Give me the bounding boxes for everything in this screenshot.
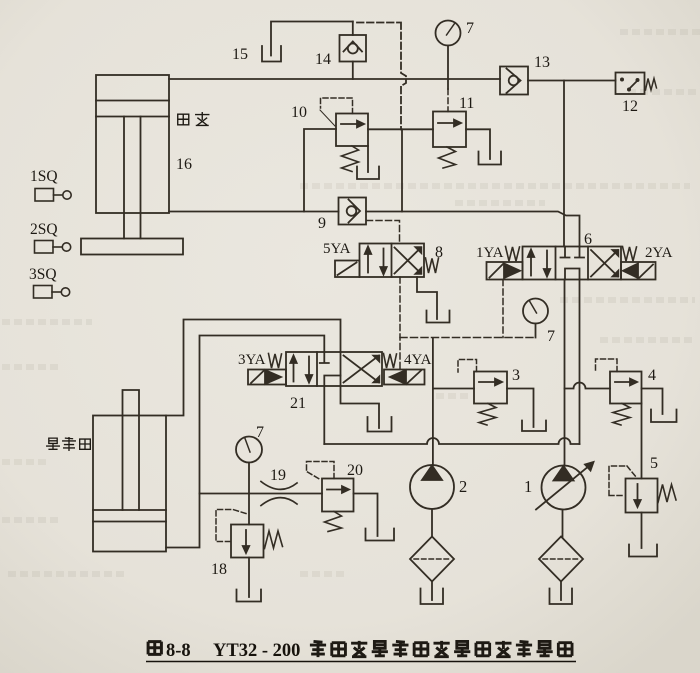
svg-text:7: 7 — [256, 424, 264, 441]
wire: valve 3 outlet to tank — [507, 389, 534, 428]
wire: gauge 7a stem — [447, 46, 449, 90]
variable pump 1 — [536, 462, 594, 510]
caption 图8-8 YT32-200型四柱万能液压机液压系统图 — [146, 641, 576, 662]
spring of valve 10 — [342, 146, 359, 172]
filter under pump 2 — [410, 537, 454, 582]
limit switch 1SQ — [35, 189, 71, 202]
svg-text:19: 19 — [270, 467, 286, 484]
wire: filter 2 to tank — [431, 582, 433, 601]
wire: gauge 7b stem — [535, 324, 537, 338]
pressure gauge 7b — [523, 299, 548, 324]
svg-text:4YA: 4YA — [404, 352, 432, 368]
wire: riser check14 to L1 — [352, 62, 354, 80]
pilot dashed of valve 4 — [596, 359, 618, 372]
check valve 9 — [339, 198, 367, 225]
solenoid 2YA of valve 6 — [621, 262, 656, 280]
wire: low line L2 (cylinder bottom to check 9) — [169, 211, 339, 213]
solenoid 5YA of valve 8 — [335, 261, 360, 278]
tank under valve 8 drain — [427, 311, 450, 323]
svg-text:9: 9 — [318, 215, 326, 232]
wire: junction riser x=402 from valve10/11 line down to L2 — [401, 129, 403, 211]
svg-text:5: 5 — [650, 455, 658, 472]
relief valve 10 — [336, 114, 368, 147]
pilot line (dashed) from check 14 down to valve 10/11 line — [357, 23, 406, 130]
limit switch 2SQ — [35, 241, 71, 254]
svg-text:1YA: 1YA — [476, 245, 504, 261]
svg-text:5YA: 5YA — [323, 241, 351, 257]
wire: return line valve21 to valve6 T with hops — [324, 438, 579, 444]
wire: valve 5 to tank — [641, 513, 643, 549]
fixed pump 2 — [410, 465, 454, 509]
svg-text:2: 2 — [459, 477, 467, 496]
svg-text:14: 14 — [315, 51, 331, 68]
wire: valve 6 T down to return line — [579, 280, 581, 445]
pilot dashed of valve 10 — [321, 98, 353, 114]
solenoid 3YA of valve 21 — [248, 370, 286, 385]
wire: valve 6 A-port riser from L1 — [563, 81, 565, 247]
tank of valve 4 — [651, 410, 677, 423]
spring of valve 20 — [325, 512, 342, 532]
relief valve 18 — [231, 525, 264, 558]
spring of valve 5 — [658, 485, 676, 503]
pilot dashed of valve 3 — [458, 360, 477, 373]
drain of valve 8 to tank — [417, 277, 437, 319]
tank right of valve 11 — [479, 152, 502, 165]
spring of valve 4 — [613, 404, 630, 426]
svg-text:2YA: 2YA — [645, 245, 673, 261]
svg-text:11: 11 — [459, 95, 474, 112]
relief valve 11 — [433, 112, 466, 148]
tank of valve 18 — [237, 590, 262, 602]
svg-text:10: 10 — [291, 104, 307, 121]
svg-text:13: 13 — [534, 54, 550, 71]
valve 21 centre position — [320, 352, 341, 386]
solenoid valve 6 body — [523, 247, 622, 280]
svg-text:3: 3 — [512, 367, 520, 384]
spring W of valve 8 — [426, 258, 439, 273]
tank of valve 5 — [629, 545, 657, 557]
solenoid valve 21 body — [286, 352, 382, 386]
valve 6 centre position: blocked A/B, P-T connected — [561, 247, 585, 280]
valve 21 right position crossed arrows — [344, 356, 380, 383]
wire: valve 10 left port down to L2 — [304, 129, 336, 212]
svg-text:3SQ: 3SQ — [29, 266, 57, 283]
svg-text:12: 12 — [622, 98, 638, 115]
relief valve 3 — [474, 372, 507, 404]
pressure switch 12 — [616, 73, 657, 95]
pilot dashed: check 9 to valve 8 top — [367, 221, 400, 244]
check valve 13 — [500, 67, 528, 95]
spring of valve 3 — [479, 404, 496, 426]
pilot dashed of valve 18 — [216, 510, 246, 542]
wire: pump 2 suction — [431, 509, 433, 537]
wire: filter 1 to tank — [560, 582, 562, 601]
svg-text:1SQ: 1SQ — [30, 168, 58, 185]
solenoid 1YA of valve 6 — [487, 262, 523, 280]
wire: pump 2 riser to valve 3 — [433, 388, 474, 390]
valve 21 left position arrows — [290, 356, 312, 383]
pilot dashed: horizontal pilot manifold y=337.5 — [400, 337, 536, 339]
leader line of label 10 — [320, 110, 335, 126]
valve 6 right position crossed arrows — [591, 250, 618, 277]
relief valve 4 — [610, 372, 642, 404]
valve 8 left position arrows — [365, 247, 387, 275]
tank of valve 21 — [368, 417, 392, 432]
spring of valve 6 right — [623, 247, 637, 262]
pilot dashed: 1YA solenoid drop — [502, 280, 504, 338]
wire: line through valve 18 — [248, 494, 250, 598]
limit switch 3SQ — [34, 286, 70, 299]
spring of valve 21 right — [384, 354, 397, 369]
wire: L1 from valve 13 to pressure switch 12 — [528, 80, 616, 82]
wire: valve 21 P-port up and left to ejector rod side — [166, 320, 341, 416]
svg-text:YT32 - 200: YT32 - 200 — [213, 641, 300, 661]
tank under filter 2 — [421, 589, 444, 605]
tank of valve 20 — [366, 529, 395, 541]
pilot dashed from gauge 7a to valve 11 — [447, 89, 449, 112]
solenoid 4YA of valve 21 — [384, 370, 425, 385]
tank 15 — [262, 46, 281, 62]
wire: valve 10 right port to valve 11 left port — [368, 128, 433, 130]
wire: pump 1 pressure riser to valve 6 P — [564, 280, 566, 466]
label 顶出缸 — [47, 438, 91, 451]
valve 6 left position arrows — [528, 250, 550, 277]
wire: check 14 to tank 15 — [271, 22, 353, 56]
throttle valve 19 — [261, 482, 297, 506]
check valve 14 — [340, 22, 367, 62]
tank of valve 3 — [522, 421, 546, 432]
svg-text:4: 4 — [648, 367, 656, 384]
spring of valve 21 left — [269, 354, 282, 369]
pressure gauge 7c — [236, 437, 262, 463]
label 主缸 — [178, 113, 209, 126]
svg-text:1: 1 — [524, 477, 532, 496]
svg-text:2SQ: 2SQ — [30, 221, 58, 238]
wire: valve 21 A-port up-left-down to ejector bottom port — [166, 336, 324, 548]
svg-text:18: 18 — [211, 561, 227, 578]
platen of main cylinder — [81, 239, 183, 255]
wire: gauge 7c stem to ejector line — [248, 463, 250, 494]
svg-text:7: 7 — [547, 328, 555, 345]
wire: main press line L1 (cylinder top to valve 13) — [169, 78, 500, 80]
svg-text:16: 16 — [176, 156, 192, 173]
relief valve 5 — [626, 479, 658, 513]
valve 8 right position crossed arrows — [395, 247, 422, 274]
wire: pump 2 output riser — [432, 338, 434, 465]
wire: valve 4 to valve 5 — [641, 404, 643, 479]
main cylinder 16 (主缸) — [96, 75, 169, 239]
svg-text:6: 6 — [584, 231, 592, 248]
tank under filter 1 — [550, 589, 573, 605]
pilot dashed of valve 20 — [307, 462, 335, 481]
wire: valve 21 drain to tank — [341, 386, 380, 428]
wire: pump 1 suction — [562, 510, 564, 538]
drain pipe of valve 10 — [367, 146, 369, 172]
svg-text:7: 7 — [466, 20, 474, 37]
svg-text:8: 8 — [435, 244, 443, 261]
wire: L2 from check 9 to valve 6 B-port — [366, 212, 580, 247]
spring of valve 11 — [439, 147, 456, 168]
spring of valve 6 left — [506, 247, 520, 262]
svg-text:8-8: 8-8 — [166, 641, 191, 661]
tank under valve 10 — [357, 167, 379, 180]
solenoid valve 8 body — [360, 244, 425, 278]
svg-text:21: 21 — [290, 395, 306, 412]
pilot dashed of valve 5 — [609, 466, 637, 496]
relief valve 20 — [322, 479, 354, 512]
wire: valve 4 outlet to tank — [642, 389, 663, 415]
wire: pump1 riser to valve 4 with hop over T line — [565, 383, 611, 389]
filter under pump 1 — [539, 537, 583, 582]
pilot dashed: valve 8 bottom to 4YA solenoid — [399, 277, 401, 370]
svg-text:20: 20 — [347, 462, 363, 479]
spring of valve 18 — [265, 531, 283, 549]
pressure gauge 7a — [436, 21, 461, 46]
svg-text:3YA: 3YA — [238, 352, 266, 368]
wire: valve 21 left bottom port down to return line — [323, 386, 325, 444]
wire: ejector line to throttle and valve 20 — [200, 493, 323, 495]
wire: valve 20 outlet to tank — [354, 494, 378, 537]
ejector cylinder (顶出缸) — [93, 390, 166, 552]
svg-text:15: 15 — [232, 46, 248, 63]
wire: valve 11 right port to tank — [466, 129, 490, 159]
